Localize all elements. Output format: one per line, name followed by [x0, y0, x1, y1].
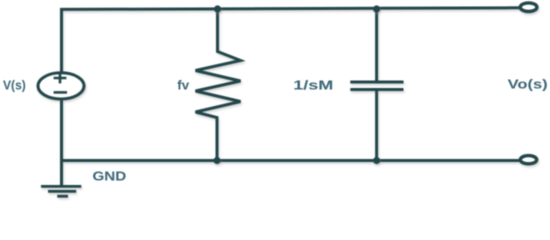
junction node resistor top [214, 5, 221, 12]
output terminal bottom right [520, 156, 536, 164]
junction node resistor bottom [213, 157, 220, 164]
svg-text:GND: GND [93, 168, 127, 183]
svg-text:V(s): V(s) [3, 78, 26, 92]
output terminal top right [520, 3, 537, 12]
capacitor 1/sM bottom wire [375, 90, 378, 161]
svg-text:Vo(s): Vo(s) [508, 78, 548, 92]
junction node capacitor bottom [373, 157, 380, 164]
svg-text:1/sM: 1/sM [293, 79, 333, 93]
junction node capacitor top [373, 5, 380, 12]
svg-text:fv: fv [177, 78, 189, 93]
minus mark of voltage source [54, 91, 67, 94]
wire left vertical from top rail to voltage source [60, 9, 63, 73]
capacitor 1/sM top plate [350, 81, 403, 84]
plus mark of voltage source [54, 73, 67, 84]
ground symbol [41, 186, 81, 196]
voltage source V(s) body [38, 73, 84, 99]
resistor fv (with wires to rails) [196, 9, 241, 161]
capacitor 1/sM top wire [375, 9, 378, 82]
wire top rail [60, 8, 520, 10]
wire bottom rail [60, 159, 520, 162]
wire left vertical from voltage source through bottom rail to ground [60, 99, 63, 185]
capacitor 1/sM bottom plate [350, 88, 403, 91]
